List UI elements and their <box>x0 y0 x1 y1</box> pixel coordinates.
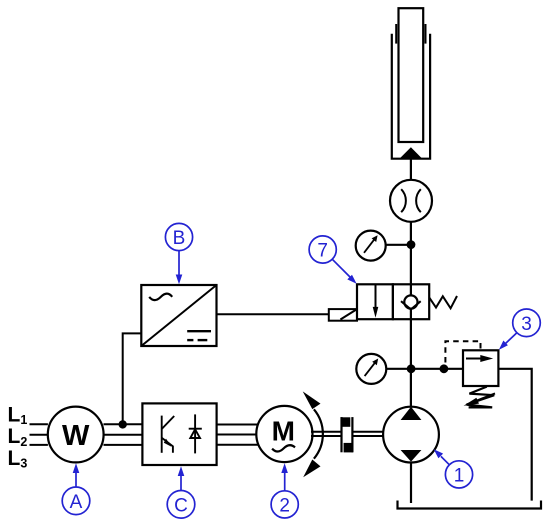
svg-text:C: C <box>174 495 188 516</box>
callout A circle <box>62 487 90 515</box>
converter C box <box>142 403 216 465</box>
pressure gauge lower <box>356 354 386 384</box>
wire cylinder to flow meter <box>410 159 412 180</box>
valve spring <box>429 296 457 308</box>
tank <box>398 501 542 509</box>
svg-text:L3: L3 <box>8 447 28 471</box>
cylinder seal tick left <box>395 24 397 44</box>
inverter dc symbol <box>187 330 211 332</box>
svg-text:B: B <box>173 228 186 249</box>
texts black <box>8 403 295 470</box>
motor sine <box>272 445 295 451</box>
svg-text:A: A <box>70 492 83 513</box>
inverter B box <box>141 285 216 346</box>
svg-text:W: W <box>62 420 90 452</box>
node junction main line <box>407 364 416 373</box>
svg-text:3: 3 <box>521 314 532 335</box>
valve solenoid <box>329 309 357 321</box>
relief valve adjust arrow <box>472 393 495 402</box>
callout 2 circle <box>271 491 298 518</box>
relief valve body <box>463 350 498 386</box>
node junction to inverter <box>119 420 127 428</box>
wire valve to pump node <box>410 319 412 407</box>
node junction pilot <box>440 364 449 373</box>
shaft motor side <box>311 431 342 433</box>
cylinder seal tick right <box>425 24 427 44</box>
three-phase lines C to M <box>217 424 259 426</box>
cylinder inlet arrow <box>400 147 422 158</box>
check valve ball <box>410 284 412 319</box>
svg-text:L1: L1 <box>8 403 28 427</box>
callout 1 circle <box>445 461 472 488</box>
pressure gauge upper <box>356 231 386 261</box>
relief valve spring <box>467 387 495 408</box>
inverter sine <box>149 294 172 300</box>
flow meter Q <box>390 180 432 222</box>
diode <box>194 414 196 453</box>
svg-text:7: 7 <box>317 241 328 262</box>
wire lower gauge to relief valve <box>386 368 463 370</box>
callout 3 circle <box>513 309 541 337</box>
pump suction line <box>410 463 412 504</box>
valve V7 body left square <box>357 284 393 319</box>
cylinder barrel <box>392 34 430 159</box>
svg-text:2: 2 <box>279 495 290 516</box>
node junction upper <box>407 240 416 249</box>
relief valve pilot dashed line <box>445 341 480 362</box>
power meter W <box>48 407 104 463</box>
pump P1 <box>383 407 439 463</box>
valve V7 body right square <box>393 284 429 319</box>
motor rotation arc <box>314 409 323 458</box>
valve V7 flow arrow <box>375 284 377 308</box>
coupling <box>340 417 342 452</box>
wire flow meter to valve <box>410 222 412 284</box>
relief valve outlet wire <box>498 369 531 501</box>
callout 7 circle <box>309 236 336 263</box>
motor M2 <box>256 406 312 462</box>
wire riser to inverter <box>123 333 142 424</box>
callout C circle <box>167 491 195 519</box>
check valve seat <box>401 301 421 309</box>
three-phase lines W to C <box>30 423 48 425</box>
svg-text:1: 1 <box>454 465 465 486</box>
wire gauge to node <box>386 244 411 246</box>
cylinder plunger rod <box>399 8 424 142</box>
svg-text:L2: L2 <box>8 425 28 449</box>
relief valve arrow <box>466 358 483 360</box>
transistor <box>161 416 163 453</box>
shaft pump side <box>352 431 383 433</box>
blue callouts <box>62 223 540 518</box>
svg-text:M: M <box>272 416 295 447</box>
wire converter to solenoid <box>217 313 329 315</box>
callout B circle <box>165 223 192 250</box>
